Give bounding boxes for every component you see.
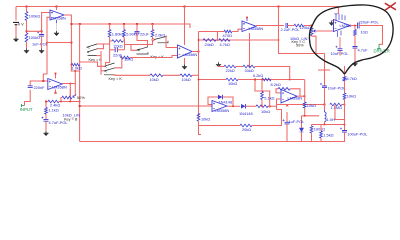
- ground at 22k: [216, 62, 221, 64]
- resistor R19 5.1k: [261, 80, 263, 92]
- ground below C1: [39, 49, 44, 51]
- svg-text:10kΩ: 10kΩ: [228, 81, 237, 86]
- svg-text:33kΩ: 33kΩ: [245, 68, 254, 73]
- wire U1 output: [64, 15, 80, 71]
- svg-text:470Ω: 470Ω: [223, 33, 232, 38]
- rail x110 below R3: [109, 37, 111, 51]
- resistor R8 1.0k: [71, 63, 79, 66]
- wire U1 feedback to -in: [43, 17, 50, 81]
- resistor R6 1.5k to U5 -in: [120, 56, 130, 59]
- ground below C5: [43, 131, 48, 133]
- resistor R4 5.90k: [123, 23, 125, 25]
- svg-text:50%: 50%: [296, 43, 304, 47]
- svg-text:1.5kΩ: 1.5kΩ: [323, 132, 333, 137]
- capacitor C9 2.2uF-POL: [286, 23, 288, 28]
- wire bus drop vertical x79.6: [79, 24, 81, 142]
- wire U5 +in from switch: [166, 47, 178, 49]
- switch J3 lower bank: [100, 51, 102, 75]
- op-amp U7 LM358N: [281, 90, 297, 103]
- selector arm black: [154, 36, 168, 43]
- wire stub bottom corner: [199, 126, 202, 135]
- battery V1 9V: [15, 7, 17, 21]
- wire pot wiper to U3 -in: [316, 30, 334, 32]
- rail x124.5 below R4: [123, 37, 126, 50]
- inductor L1 1.0H: [324, 105, 326, 111]
- resistor R16 20k clipper bottom: [240, 124, 252, 127]
- ground before U3: [329, 21, 334, 23]
- svg-text:100kΩ: 100kΩ: [29, 35, 40, 40]
- wire gain node line to vertical: [70, 101, 79, 103]
- op-amp U4 LM358N: [48, 79, 62, 90]
- wire long vertical: [198, 32, 200, 118]
- resistor R31 10 ohm: [354, 25, 356, 27]
- switch J2 red stubs: [131, 45, 137, 51]
- wire U7 feedback loop: [276, 89, 281, 93]
- wire V+ top bus: [16, 7, 338, 15]
- resistor R18 6.2k top: [262, 78, 271, 81]
- diode D3 vertical: [300, 128, 304, 132]
- switch J2 Key=K 22uF select: [137, 33, 148, 47]
- svg-text:Key = B: Key = B: [64, 118, 78, 122]
- svg-text:1uF-POL: 1uF-POL: [32, 41, 49, 46]
- svg-text:LM358N: LM358N: [249, 26, 264, 31]
- annotation freehand circle: [309, 5, 393, 74]
- annotation red X: [385, 3, 396, 11]
- wire selector arm to U5 +in: [166, 36, 167, 47]
- resistor R22 33k: [236, 66, 243, 68]
- selector contact circle: [152, 39, 154, 41]
- potentiometer R30 10k_LIN volume: [310, 28, 313, 36]
- ground below battery: [13, 37, 18, 39]
- wire clipper top feedback line: [199, 79, 227, 81]
- svg-text:22kΩ: 22kΩ: [226, 68, 235, 73]
- wire U5 V+ from bus: [184, 7, 186, 46]
- diode D1 1N4148: [208, 97, 218, 105]
- ground below 4.7uF: [352, 62, 357, 64]
- resistor R24 10k on V+ drop: [304, 80, 306, 103]
- resistor R7 27k horizontal: [110, 40, 112, 42]
- capacitor C4 220nF: [28, 86, 33, 88]
- switch J1 Key=A: [87, 44, 98, 56]
- resistor R21 22k: [224, 65, 236, 68]
- resistor R34 4.7k right: [344, 66, 346, 77]
- wire U7 V- marker: [286, 105, 288, 107]
- svg-text:LM358N: LM358N: [183, 52, 198, 57]
- resistor R14 10k clipper top: [226, 78, 238, 81]
- resistor R1 100k: [26, 7, 28, 12]
- wire stub under blob: [318, 69, 330, 71]
- svg-text:24kΩ: 24kΩ: [205, 42, 214, 47]
- wire rail x110 down to J3: [106, 51, 110, 66]
- capacitor C8 1uF-POL: [286, 112, 288, 122]
- svg-text:4.7uF: 4.7uF: [358, 47, 369, 52]
- svg-text:10kΩ: 10kΩ: [347, 93, 356, 98]
- wire pot left leg: [61, 98, 62, 102]
- resistor R28 470 ohm: [199, 31, 225, 33]
- wire U4 V+ stub: [55, 73, 57, 79]
- svg-text:LM358N: LM358N: [215, 108, 230, 113]
- svg-text:50%: 50%: [77, 95, 85, 100]
- resistor R12 1.1k: [45, 102, 47, 108]
- op-amp U2 LM358N: [242, 21, 256, 32]
- resistor R15 10k clipper left: [197, 113, 200, 121]
- wire U3 top pins: [335, 13, 345, 20]
- wire x335 branch: [335, 105, 345, 120]
- wire U5 out to long vertical: [192, 51, 199, 53]
- resistor R10 10k horizontal lower: [180, 74, 192, 77]
- svg-text:Key = K: Key = K: [89, 58, 103, 62]
- wire U2 V+ arrow: [246, 18, 248, 22]
- potentiometer R13 10k_LIN: [62, 96, 72, 99]
- resistor R11 2.4k: [48, 100, 59, 103]
- svg-text:10kΩ_LIN: 10kΩ_LIN: [290, 36, 308, 41]
- wire LC rail: [312, 124, 345, 126]
- svg-text:5.1kΩ: 5.1kΩ: [264, 96, 274, 101]
- diode D2 1N4148: [241, 104, 246, 109]
- resistor R33 4.7k: [219, 39, 230, 42]
- svg-text:LM358N: LM358N: [51, 15, 66, 20]
- svg-text:10kΩ: 10kΩ: [201, 117, 210, 122]
- wire U4 out down to gain node: [69, 84, 71, 102]
- resistor R29 120k: [294, 24, 304, 27]
- svg-text:1.0kΩ: 1.0kΩ: [72, 65, 82, 70]
- wire 24k/4.7k feedback row: [199, 39, 279, 41]
- capacitor C11 220uF-POL: [358, 23, 360, 29]
- op-amp U6 LM358N: [212, 101, 227, 112]
- wire bridge to pot wiper: [74, 71, 76, 96]
- wire to volume pot: [288, 25, 294, 27]
- wire V+ drop to bypass rail: [279, 7, 325, 54]
- wire U4 V- stub: [55, 90, 57, 94]
- svg-text:1.1kΩ: 1.1kΩ: [49, 108, 59, 113]
- op-amp U3 LM386: [334, 20, 351, 32]
- wire stub to 470 line: [217, 32, 219, 41]
- node bus-battery: [26, 6, 28, 8]
- svg-text:10Ω: 10Ω: [361, 29, 368, 34]
- resistor R9 10k horizontal lower: [113, 74, 150, 77]
- wire pot bottom to rail: [312, 36, 316, 54]
- wire branch to selector contact: [125, 41, 153, 45]
- svg-text:LM358N: LM358N: [52, 85, 67, 90]
- capacitor C10 10uF-POL driver: [339, 37, 341, 49]
- wire clipper out to EQ filter: [270, 105, 325, 107]
- node divider mid: [26, 30, 28, 32]
- capacitor C3 22nF horizontal: [110, 49, 116, 51]
- wire U3 bottom pins: [338, 31, 342, 38]
- input connector INPUT: [22, 104, 25, 107]
- capacitor C2 22uF: [136, 23, 138, 25]
- svg-text:Key = K: Key = K: [151, 55, 165, 59]
- wire divider to C1 and op-amp U1 +in: [27, 13, 51, 32]
- capacitor C6 10uF-POL mid: [324, 54, 326, 87]
- svg-text:100kΩ: 100kΩ: [29, 14, 40, 19]
- svg-text:10kΩ: 10kΩ: [307, 103, 316, 108]
- op-amp U5 LM358N: [178, 45, 193, 58]
- svg-text:2.2uF-POL: 2.2uF-POL: [281, 27, 301, 32]
- wire left leg with diode: [301, 116, 303, 128]
- ground below U5: [182, 65, 187, 67]
- output connector DRIVER: [377, 44, 381, 49]
- resistor R2 100k: [25, 33, 28, 42]
- wire U4 output line: [62, 83, 75, 85]
- svg-text:LM386: LM386: [340, 23, 352, 28]
- ground below R2: [24, 49, 29, 51]
- svg-text:100uF-POL: 100uF-POL: [347, 131, 368, 136]
- node -in U4: [42, 80, 44, 82]
- wire input to C4: [25, 90, 31, 106]
- svg-text:Key = K: Key = K: [109, 77, 123, 81]
- svg-text:1.5MΩ: 1.5MΩ: [331, 105, 343, 110]
- wire U1 V+ pin: [56, 7, 58, 11]
- capacitor C7 100uF-POL: [344, 125, 346, 131]
- wire bottom ground bus: [80, 141, 345, 143]
- ground below U1: [54, 31, 59, 33]
- wire U6 out: [227, 105, 240, 107]
- switch J3 red stubs: [101, 70, 104, 72]
- wire feedback link: [47, 42, 71, 44]
- svg-text:4.7kΩ: 4.7kΩ: [220, 42, 230, 47]
- wire U5 V- to ground: [184, 58, 186, 65]
- resistor R3 1.80k: [109, 23, 111, 25]
- svg-text:220nF: 220nF: [34, 85, 46, 90]
- wire bottom jog: [302, 115, 320, 117]
- wire U7 +in: [277, 99, 282, 110]
- svg-text:100kΩ: 100kΩ: [314, 126, 325, 131]
- resistor R17 10k after D2: [246, 105, 257, 107]
- wire U1 V- pin: [56, 20, 58, 23]
- capacitor C1 1uF-POL: [41, 31, 43, 34]
- resistor R5 2.0k: [152, 23, 154, 25]
- op-amp U1 LM358N buffer: [50, 10, 64, 20]
- svg-text:1N4148: 1N4148: [239, 111, 253, 116]
- wire feedback from top: [255, 80, 270, 108]
- node clipper out: [269, 105, 271, 107]
- wire signal long run to clipper: [80, 105, 212, 107]
- svg-text:220uF-POL: 220uF-POL: [359, 19, 380, 24]
- resistor R26 1.5k bottomright: [320, 125, 322, 132]
- resistor R32 24k: [203, 39, 216, 42]
- wire U7 out to node: [297, 95, 305, 97]
- wire pot wiper tap: [69, 89, 71, 96]
- wire bias to top line: [255, 67, 290, 80]
- wire U2 out: [256, 25, 284, 27]
- capacitor C12 4.7uF: [353, 47, 358, 49]
- wire J3 middle tip to 1.5k: [115, 58, 122, 68]
- svg-text:20kΩ: 20kΩ: [242, 127, 251, 132]
- svg-text:9 V: 9 V: [18, 21, 24, 26]
- wire U2 V- down: [249, 33, 251, 67]
- svg-text:10kΩ: 10kΩ: [261, 109, 270, 114]
- svg-text:10kΩ: 10kΩ: [150, 77, 159, 82]
- svg-text:1uF-POL: 1uF-POL: [289, 119, 306, 124]
- resistor R23 1.5M: [330, 103, 342, 106]
- svg-text:10uF-POL: 10uF-POL: [328, 86, 347, 91]
- capacitor C5 4.7uF-POL: [45, 114, 47, 120]
- wire U3 out: [350, 25, 357, 27]
- resistor R27 10k right: [344, 81, 346, 93]
- svg-text:10kΩ: 10kΩ: [182, 77, 191, 82]
- svg-text:INPUT: INPUT: [20, 107, 33, 112]
- svg-text:22uF: 22uF: [140, 31, 149, 36]
- resistor R25 100k bottomright: [311, 125, 313, 127]
- switch J1 red stubs: [97, 43, 104, 45]
- svg-text:4.7kΩ: 4.7kΩ: [347, 76, 357, 81]
- svg-text:6.2kΩ: 6.2kΩ: [253, 73, 263, 78]
- svg-text:1.0H: 1.0H: [327, 117, 335, 122]
- wire virtual ground bus y24: [71, 24, 190, 28]
- svg-text:8.2kΩ: 8.2kΩ: [271, 82, 281, 87]
